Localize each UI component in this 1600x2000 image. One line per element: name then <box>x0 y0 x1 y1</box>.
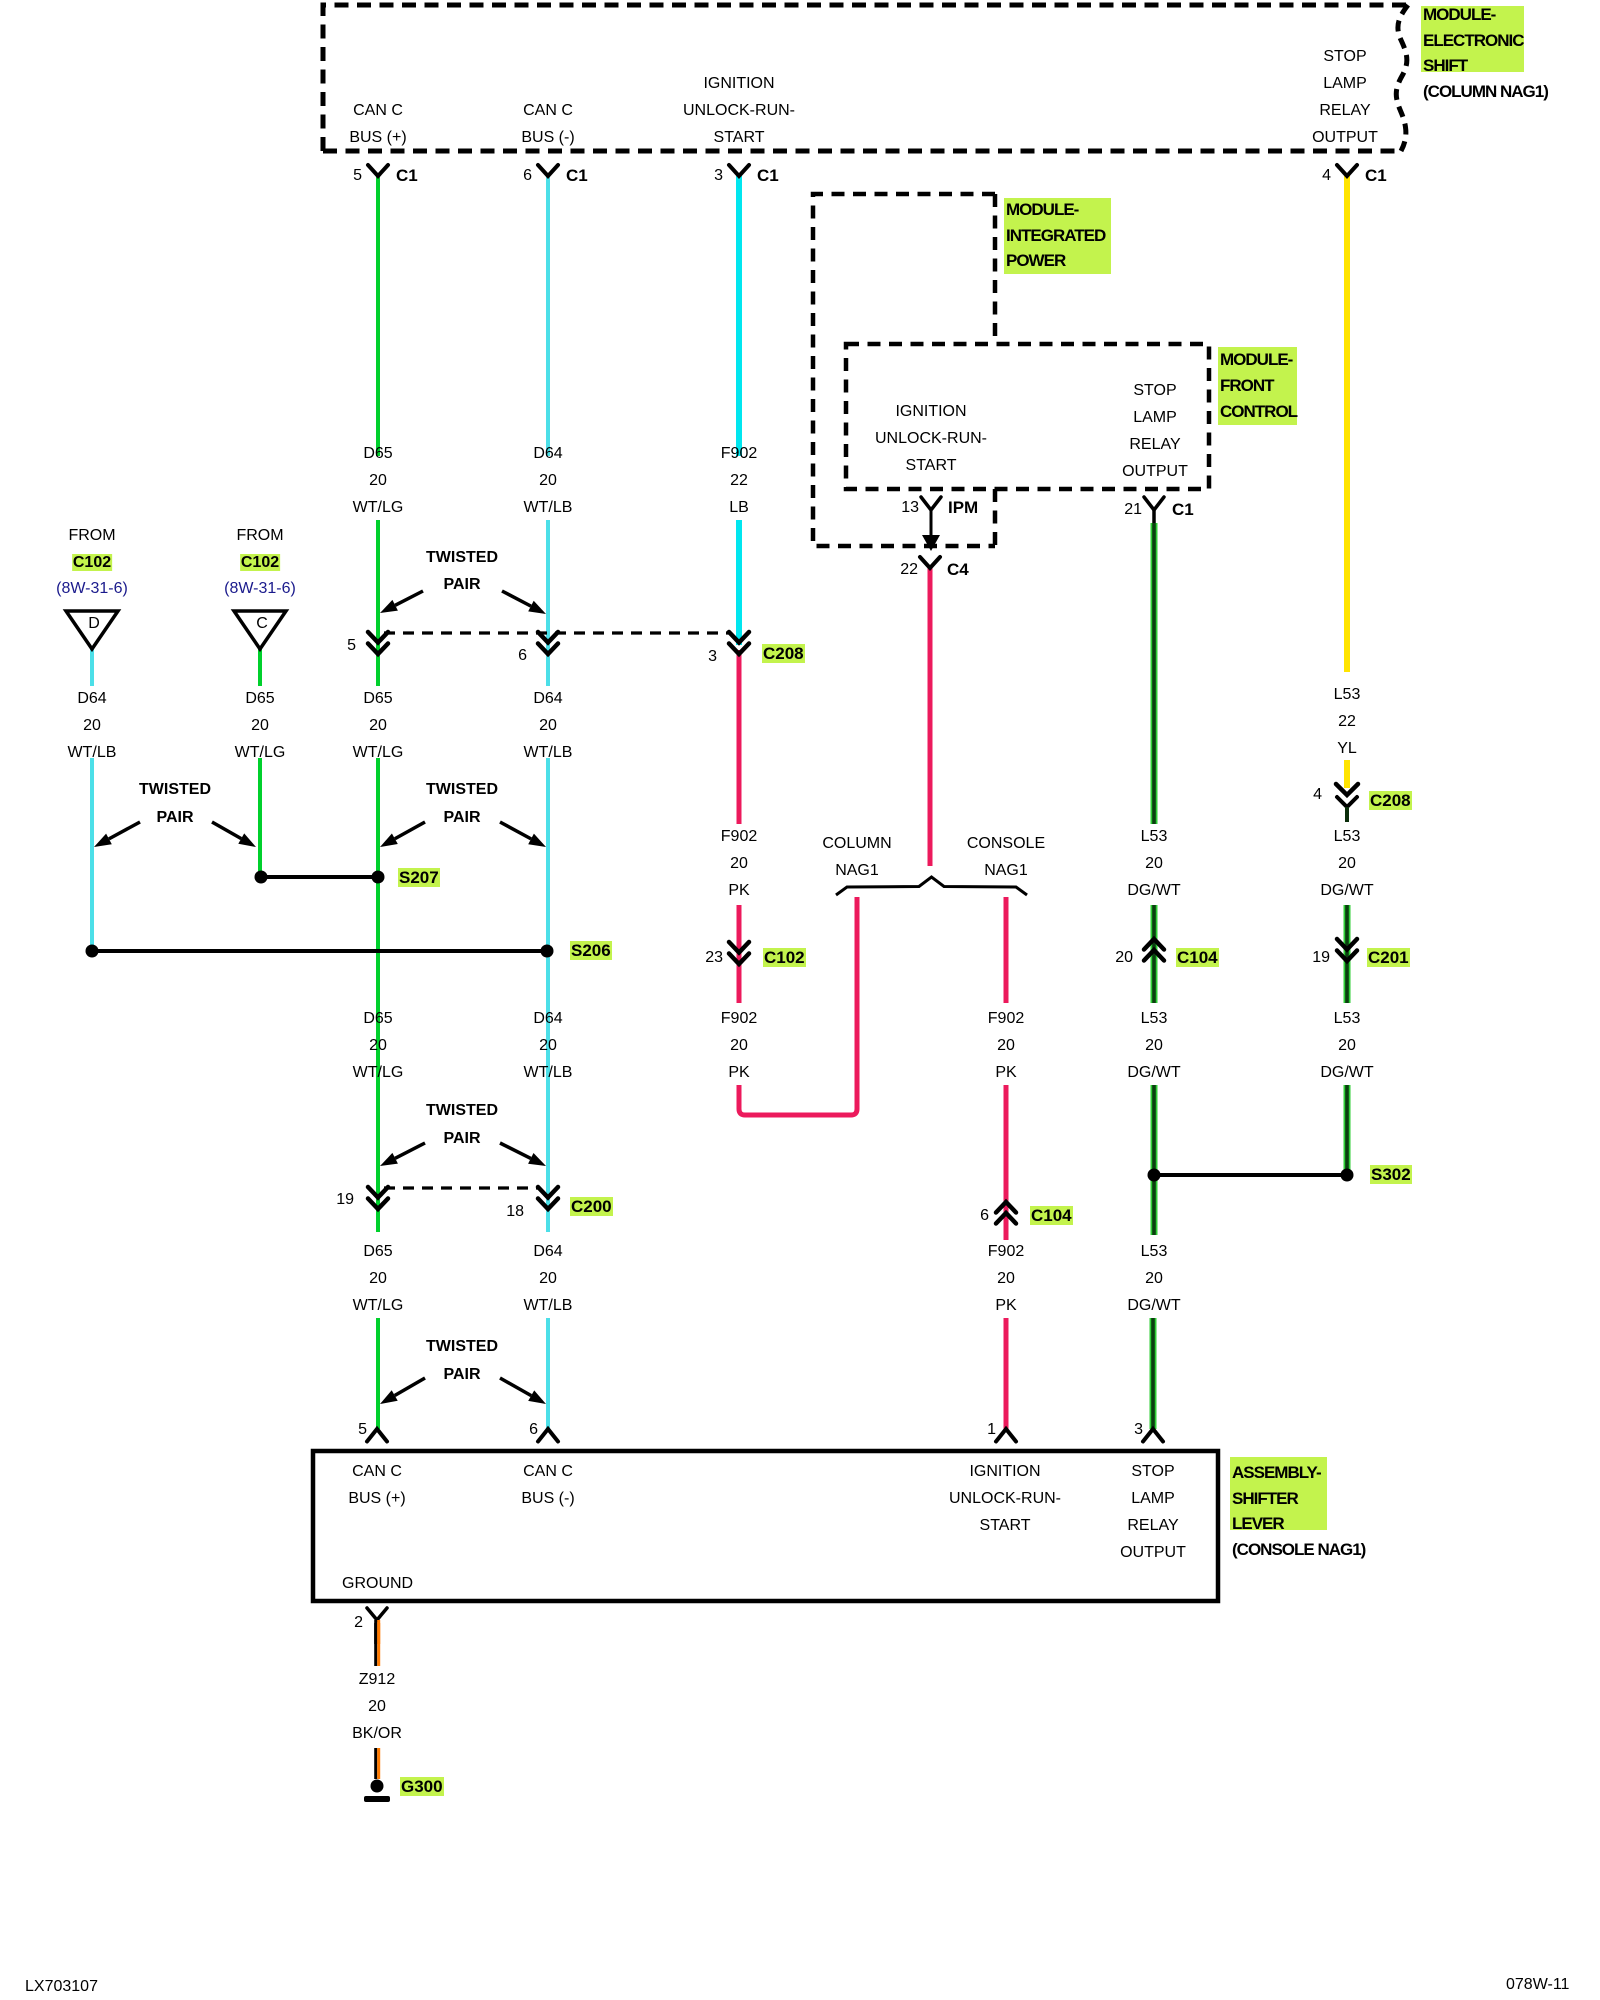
pin 4 C1 labels <box>1271 166 1331 186</box>
wire label F902 20 PK row5 <box>988 1238 1024 1319</box>
connector C104 pin 6 labels <box>929 1206 989 1226</box>
splice S302 label <box>1370 1165 1412 1185</box>
connector C208 pin 5 in-line symbol <box>368 632 388 643</box>
shifter lever pin 1 number <box>936 1420 996 1440</box>
node COLUMN NAG1 label <box>822 830 891 884</box>
connector C208 pin 6 in-line symbol <box>538 632 558 643</box>
connector C201 pin 19 in-line symbol <box>1337 939 1357 950</box>
splice S207 tie line <box>261 875 378 879</box>
wire L53 20 DG/WT segment through C104 <box>1151 905 1158 1003</box>
wire label F902 20 PK row3 <box>721 823 757 904</box>
connector C102 pin 23 labels <box>663 948 723 968</box>
wire label D65 20 WT/LG row1 <box>353 440 404 521</box>
wire D64 WT/LB segment 2 <box>546 520 550 686</box>
wire label F902 22 LB row1 <box>721 440 757 521</box>
wire label L53 20 DG/WT row4 right <box>1320 1005 1373 1086</box>
module Integrated Power box (dashed outline) <box>813 194 995 546</box>
assembly Shifter Lever name label <box>1230 1457 1327 1530</box>
shifter lever pin label IGNITION UNLOCK-RUN-START <box>949 1458 1061 1539</box>
wire F902 20 PK console branch into shifter lever pin 1 <box>1004 1318 1009 1429</box>
splice S206 tie line <box>92 949 547 953</box>
shifter lever pin 6 connector symbol <box>538 1429 558 1442</box>
wire Z912 20 BK/OR lower segment <box>374 1748 377 1779</box>
shifter lever pin label CAN C BUS (+) <box>348 1458 405 1512</box>
sheet number 078W-11 <box>1506 1975 1569 1995</box>
front control pin label STOP LAMP RELAY OUTPUT <box>1122 377 1188 485</box>
pin 6 C1 labels <box>472 166 532 186</box>
shifter lever pin label CAN C BUS (-) <box>521 1458 574 1512</box>
wire D65 WT/LG left column to splice S207 <box>258 758 262 877</box>
wire F902 22 LB segment (pin 3 C1 down) <box>736 176 742 456</box>
from C102 label right (triangle C) <box>224 523 296 603</box>
pin 5 C1 labels <box>302 166 362 186</box>
splice S207 label <box>398 868 440 888</box>
node CONSOLE NAG1 label <box>967 830 1045 884</box>
connector C208 pin 6 number <box>467 646 527 666</box>
wire label L53 22 YL <box>1334 681 1361 762</box>
wire L53 20 DG/WT into shifter lever pin 3 <box>1150 1318 1157 1429</box>
connector C200 pin 18 number <box>464 1202 524 1222</box>
wire label F902 20 PK row4 left <box>721 1005 757 1086</box>
shifter lever pin label GROUND <box>342 1574 413 1594</box>
connector C200 pin 19 number <box>294 1190 354 1210</box>
shifter lever ground pin 2 connector symbol <box>367 1608 387 1620</box>
wire F902 20 PK elbow to column NAG1 branch <box>739 897 857 1115</box>
shifter lever pin 6 number <box>478 1420 538 1440</box>
wire label D64 20 WT/LB row2 far-left <box>68 685 117 766</box>
module Electronic Shift name label <box>1421 6 1524 72</box>
wire L53 22 YL segment (pin 4 C1 down) <box>1344 176 1350 672</box>
connector C208 pin 5 number <box>296 636 356 656</box>
wire from triangle C (D65 WT/LG) <box>258 649 262 686</box>
wire label D64 20 WT/LB row1 <box>524 440 573 521</box>
connector C4 pin 22 labels <box>858 560 918 580</box>
connector C201 pin 19 labels <box>1270 948 1330 968</box>
connector C200 label <box>570 1197 613 1217</box>
connector C1 pin 21 symbol (front control) <box>1144 497 1164 510</box>
shifter lever pin label STOP LAMP RELAY OUTPUT <box>1120 1458 1186 1566</box>
connector C102 pin 23 in-line symbol <box>729 942 749 953</box>
wire label L53 20 DG/WT row5 <box>1127 1238 1180 1319</box>
splice S206 label <box>570 941 612 961</box>
twisted pair dashed link to C208 pin 3 <box>384 631 731 634</box>
module Electronic Shift pin label CAN C BUS (-) <box>521 97 574 151</box>
twisted pair arrows group 3 <box>395 822 425 839</box>
assembly Shifter Lever box (solid outline) <box>313 1451 1218 1601</box>
sheet number LX703107 <box>25 1977 98 1997</box>
shifter lever pin 5 connector symbol <box>367 1429 387 1442</box>
twisted pair label group 4 <box>426 1097 498 1152</box>
connector C4 pin 22 symbol <box>920 557 940 568</box>
wire D64 WT/LB bottom segment into shifter lever <box>546 1318 550 1429</box>
wire label D65 20 WT/LG row2 <box>353 685 404 766</box>
wire D64 20 WT/LB segment (pin 6 C1 down) <box>546 176 550 456</box>
wire Z912 20 BK/OR upper segment <box>374 1623 377 1666</box>
wire D65 WT/LG segment 2 <box>376 520 380 686</box>
wire label D65 20 WT/LG row4 <box>353 1005 404 1086</box>
torn right edge of Electronic Shift module box <box>1396 5 1408 151</box>
connector C104 pin 6 in-line symbol <box>996 1202 1016 1213</box>
wire F902 LB segment 2 (ends at C208) <box>736 520 742 645</box>
module Electronic Shift pin label STOP LAMP RELAY OUTPUT <box>1312 43 1378 151</box>
wire L53 20 DG/WT from front control pin 21 C1 <box>1151 523 1158 824</box>
twisted pair label group 3 <box>426 776 498 831</box>
wire F902 20 PK segment through C102 <box>737 905 742 1003</box>
wire F902 20 PK segment below C208 <box>737 650 742 824</box>
wire L53 20 DG/WT right column to splice S302 <box>1344 1085 1351 1175</box>
ground G300 label <box>400 1777 444 1797</box>
wire from triangle D (D64 WT/LB) <box>90 649 94 686</box>
wire F902 20 PK from IPM pin 22 C4 <box>928 568 933 866</box>
triangle C letter <box>256 614 268 634</box>
module Integrated Power name label <box>1004 198 1111 274</box>
connector C208 pin 4 labels <box>1262 785 1322 805</box>
twisted pair dashed link C200 pins 19-18 <box>384 1186 540 1189</box>
wire label L53 20 DG/WT row4 left <box>1127 1005 1180 1086</box>
connector C1 pin 3 symbol <box>729 165 749 176</box>
front control pin label IGNITION UNLOCK-RUN-START <box>875 398 987 479</box>
module Electronic Shift pin label CAN C BUS (+) <box>349 97 406 151</box>
connector C208 pin 3 in-line symbol <box>729 632 749 643</box>
wire label D64 20 WT/LB row2 <box>524 685 573 766</box>
twisted pair arrows group 5 <box>395 1378 425 1395</box>
connector IPM pin 13 symbol with arrow <box>921 497 941 510</box>
twisted pair arrows group 1 <box>395 591 423 605</box>
pin 3 C1 labels <box>663 166 723 186</box>
wire label F902 20 PK row4 right <box>988 1005 1024 1086</box>
wire F902 20 PK console branch through C104 <box>1004 1085 1009 1240</box>
shifter lever pin 3 number <box>1083 1420 1143 1440</box>
connector C1 pin 6 symbol <box>538 165 558 176</box>
wire D64 WT/LB main column segment 3 <box>546 758 550 1232</box>
shifter lever pin 1 connector symbol <box>996 1429 1016 1442</box>
wire D65 WT/LG bottom segment into shifter lever <box>376 1318 380 1429</box>
ground pin 2 number <box>303 1613 363 1633</box>
wire D65 20 WT/LG segment (pin 5 C1 down) <box>376 176 380 456</box>
off-page triangle C (from C102) <box>234 611 286 649</box>
from C102 label left (triangle D) <box>56 523 128 603</box>
brace grouping COLUMN NAG1 / CONSOLE NAG1 <box>836 877 1027 895</box>
module Front Control name label <box>1218 347 1297 425</box>
wire F902 20 PK console NAG1 branch upper <box>1004 897 1009 1003</box>
connector C208 label <box>762 644 805 664</box>
connector C208 pin 3 number <box>657 647 717 667</box>
ground G300 symbol <box>371 1780 384 1793</box>
connector IPM pin 13 labels <box>859 498 919 518</box>
wire label L53 20 DG/WT row3 left <box>1127 823 1180 904</box>
connector C200 pin 19 in-line symbol <box>368 1187 388 1198</box>
shifter lever pin 5 number <box>307 1420 367 1440</box>
wire label L53 20 DG/WT row3 right <box>1320 823 1373 904</box>
wire label Z912 20 BK/OR <box>352 1666 402 1747</box>
connector C1 pin 21 labels <box>1082 500 1142 520</box>
off-page triangle D (from C102) <box>66 611 118 649</box>
wire L53 20 DG/WT segment through splice S302 <box>1151 1085 1158 1235</box>
connector C1 pin 4 symbol <box>1337 165 1357 176</box>
wire label D64 20 WT/LB row5 <box>524 1238 573 1319</box>
twisted pair arrows group 4 <box>395 1143 425 1158</box>
connector C1 pin 5 symbol <box>368 165 388 176</box>
twisted pair arrows group 2 (left) <box>109 822 140 839</box>
wire label D64 20 WT/LB row4 <box>524 1005 573 1086</box>
connector C200 pin 18 in-line symbol <box>538 1187 558 1198</box>
twisted pair label group 5 <box>426 1333 498 1388</box>
splice S302 tie line <box>1154 1173 1347 1177</box>
module Electronic Shift pin label IGNITION UNLOCK-RUN-START <box>683 70 795 151</box>
connector C104 pin 20 in-line symbol <box>1144 939 1164 950</box>
twisted pair label group 1 <box>426 544 498 599</box>
connector C104 pin 20 labels <box>1073 948 1133 968</box>
module Electronic Shift box (dashed outline) <box>323 5 1406 151</box>
wire L53 22 YL short segment above C208 pin 4 <box>1344 760 1350 788</box>
wire D64 WT/LB left column to splice S206 <box>90 758 94 951</box>
twisted pair label group 2 (left) <box>139 776 211 831</box>
wire D65 WT/LG main column segment 3 <box>376 758 380 1232</box>
triangle D letter <box>88 614 100 634</box>
wire label D65 20 WT/LG row2 left <box>235 685 286 766</box>
module Front Control box (dashed outline) <box>846 344 1209 489</box>
connector C208 pin 4 mating symbol (chevron + Y) <box>1336 784 1358 795</box>
wire label D65 20 WT/LG row5 <box>353 1238 404 1319</box>
shifter lever pin 3 connector symbol <box>1143 1429 1163 1442</box>
wire L53 20 DG/WT right column below C208 <box>1344 905 1351 1003</box>
